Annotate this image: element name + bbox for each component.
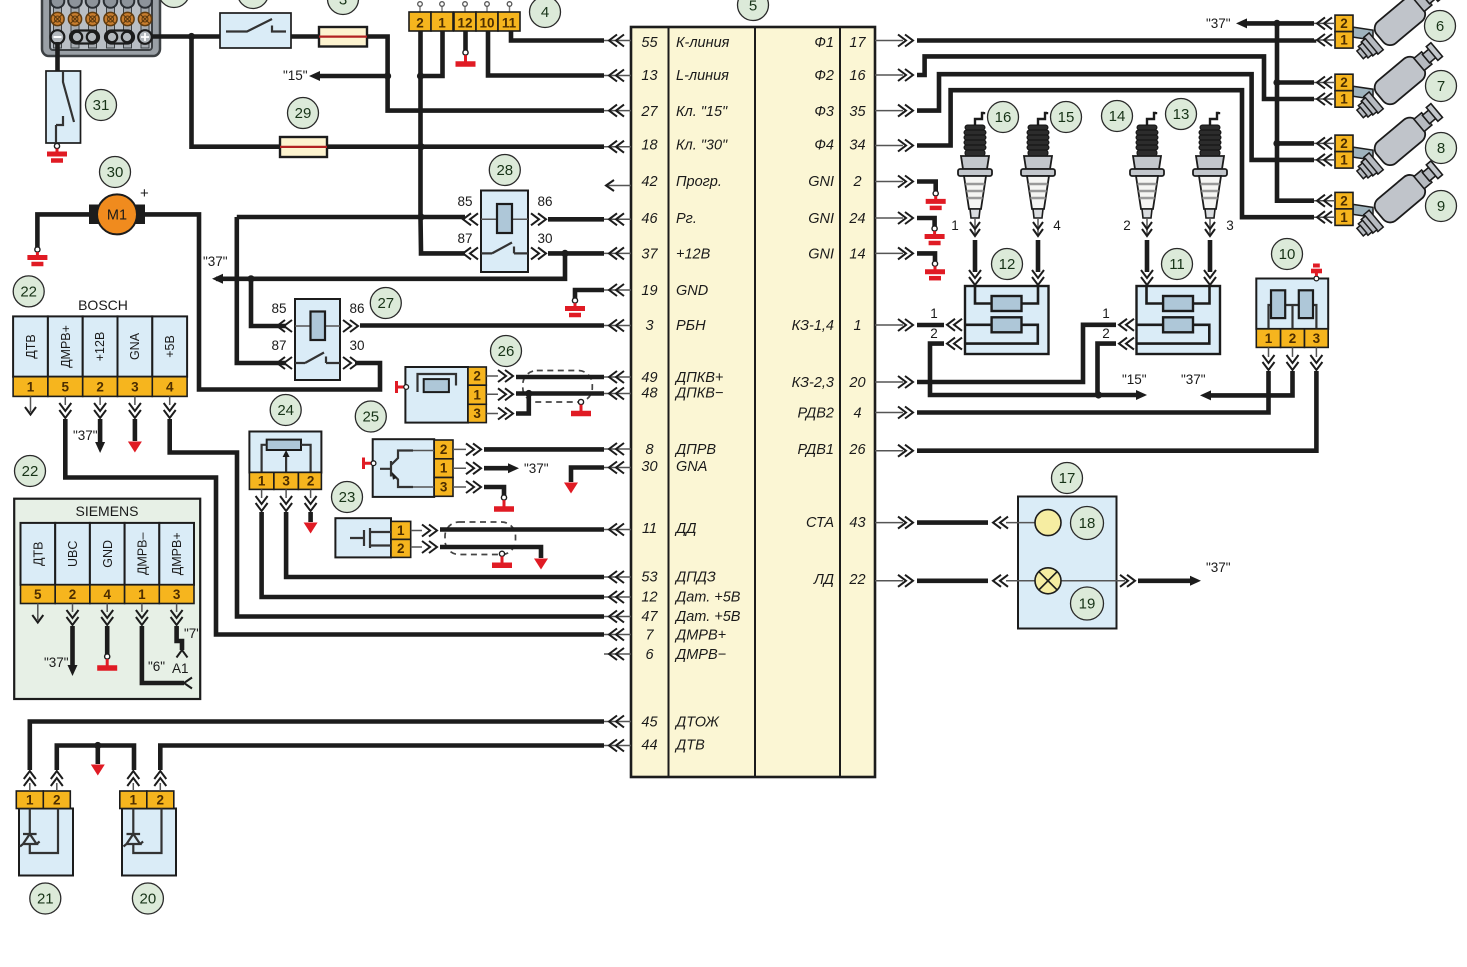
svg-text:5: 5 [749,0,757,15]
wire: pin 11 to ECU 55 K-line [511,31,604,41]
svg-text:30: 30 [107,164,124,181]
svg-text:ДМРВ–: ДМРВ– [136,533,150,576]
wire: ECU 35 F3 to injector 8 [917,74,1314,160]
wire: pin 12 to ground [463,31,468,50]
wire: item25 pin2 to ECU 8 DPRV [484,447,604,452]
svg-text:+: + [140,185,149,202]
wire: BOSCH 4 (+5V) to ECU 47 [170,419,604,617]
svg-text:43: 43 [849,515,865,531]
svg-text:1: 1 [138,587,146,602]
svg-text:15: 15 [1058,109,1075,126]
svg-text:3: 3 [131,380,139,395]
spark plug item 16 [958,112,992,236]
svg-text:42: 42 [641,174,657,190]
fuel injector item 8 [1335,100,1446,186]
label circle 25 [355,401,386,432]
svg-text:14: 14 [849,247,865,263]
label circle 24 [270,395,301,426]
svg-text:Прогр.: Прогр. [676,174,722,190]
svg-text:2: 2 [416,16,424,31]
svg-text:24: 24 [848,211,865,227]
svg-text:M1: M1 [107,208,127,224]
svg-text:6: 6 [1436,18,1444,35]
svg-text:18: 18 [641,138,657,154]
wire: relay28 86 to ECU 46 [548,217,604,222]
svg-text:1: 1 [438,16,446,31]
svg-text:12: 12 [457,16,472,31]
wire: battery + to ignition switch [152,34,220,39]
svg-text:35: 35 [849,104,866,120]
wire: crank 2 to ECU 49 DPKV+ [516,375,604,380]
fuse (top) [291,34,319,39]
svg-text:+12В: +12В [676,247,711,263]
svg-text:SIEMENS: SIEMENS [75,503,138,519]
switch 31 (brake pedal switch) [46,71,81,143]
svg-text:2: 2 [96,380,104,395]
svg-text:31: 31 [93,97,110,114]
diagnostic connector 4 [409,2,520,31]
wire: ECU RDV2 to item10 pin1 [917,371,1269,413]
SIEMENS pin1 to A1 [142,626,184,683]
svg-text:85: 85 [271,301,286,316]
wire: ECU KZ-1,4 to coil 12 pin 1 [917,323,944,328]
label circle 8 [1426,133,1457,164]
svg-text:14: 14 [1109,108,1126,125]
wire: ECU 30 GNA to red arrow [571,468,604,483]
fuel injector item 6 [1335,0,1446,66]
svg-text:13: 13 [641,68,657,84]
relay 27 (fuel pump relay) [271,299,364,380]
wire: BOSCH 5 (DMRV+) to ECU 7 [65,419,604,635]
SIEMENS pin2 to "37" [70,626,75,666]
svg-text:30: 30 [349,338,364,353]
wire: lamp 19 out to "37" [1120,575,1135,587]
svg-text:UBC: UBC [66,541,80,567]
ground bus sensor21 pin2 / sensor20 pin1 with red arrow [57,746,134,771]
label circle (partial) left [159,0,190,8]
ignition switch (contact) [220,13,291,48]
svg-text:Ф1: Ф1 [814,35,834,51]
svg-text:2: 2 [397,541,405,556]
svg-text:GND: GND [676,283,708,299]
label circle 3 [328,0,359,15]
ECU pin 42 programming stub arrow [606,185,631,187]
wire: item25 pin1 to "37" [484,466,510,471]
wire: BOSCH 2 to "37" [98,419,103,443]
wire: sensor21 pin1 to ECU 45 DTOZh [30,722,604,771]
wire: "37" line to relay 28 30 junction [251,253,565,278]
svg-text:"15": "15" [1122,372,1147,387]
svg-text:"6": "6" [148,659,165,674]
svg-text:Кл. "15": Кл. "15" [676,104,728,120]
wire: pin 2 down across to relay 28 feed [421,31,466,253]
svg-text:2: 2 [440,442,448,457]
svg-text:2: 2 [53,793,61,808]
idle air control item 10 [1256,266,1328,371]
svg-text:ДПДЗ: ДПДЗ [674,570,716,586]
svg-text:11: 11 [642,521,657,537]
label circle 15 [1051,102,1082,133]
wire: ECU LD to lamp 19 [917,578,988,583]
svg-text:2: 2 [157,793,165,808]
label circle 28 [489,155,520,186]
svg-text:48: 48 [641,386,657,402]
svg-text:26: 26 [498,343,515,360]
svg-text:11: 11 [1169,256,1185,273]
svg-text:2: 2 [1289,331,1297,346]
wire: ECU KZ-2,3 to coil 11 pin 1 [917,325,1116,382]
svg-text:7: 7 [1437,78,1445,95]
injector thin leads and chevrons [1312,23,1335,217]
svg-text:ДТВ: ДТВ [674,738,705,754]
air temp sensor item 20 [120,771,176,876]
wire: "37" node down to relay 27 85 [251,279,286,326]
svg-text:86: 86 [349,301,364,316]
svg-text:10: 10 [479,16,494,31]
svg-text:3: 3 [173,587,181,602]
svg-text:GND: GND [101,540,115,568]
svg-text:2: 2 [307,474,315,489]
svg-text:1: 1 [853,318,861,334]
svg-text:L-линия: L-линия [676,68,729,84]
svg-text:4: 4 [166,380,174,395]
wire: ECU 34 F4 to injector 9 [917,90,1314,217]
wire: item25 pin3 to ground [484,487,504,495]
label circle 17 [1052,463,1083,494]
fuse 29 [280,137,327,157]
svg-text:85: 85 [457,194,472,209]
wire: crank 3 joins DPKV- [516,394,529,414]
svg-text:ДПРВ: ДПРВ [674,442,716,458]
svg-text:55: 55 [641,35,658,51]
svg-text:8: 8 [1437,140,1445,157]
svg-text:37: 37 [641,247,658,263]
relay 28 (main relay) [457,191,552,273]
svg-text:3: 3 [1313,331,1321,346]
wire: relay28 30 to ECU 37 [548,251,604,256]
svg-text:87: 87 [271,338,286,353]
svg-text:"37": "37" [1206,560,1231,575]
wire: fuse to "15" node and down to ECU pin 27 [367,37,604,111]
ground under switch 31 [47,143,67,160]
label circle 19 [1071,587,1104,620]
HT leads plugs to coils [975,240,1210,272]
svg-text:ДД: ДД [674,521,696,537]
svg-text:Рг.: Рг. [676,211,697,227]
svg-text:Ф2: Ф2 [814,68,834,84]
svg-text:GNI: GNI [808,247,834,263]
svg-text:3: 3 [645,318,653,334]
svg-text:7: 7 [645,628,654,644]
svg-text:3: 3 [282,474,290,489]
svg-text:"15": "15" [283,68,308,83]
wire: sensor20 pin2 to ECU 44 DTV [160,746,604,771]
svg-text:44: 44 [641,738,657,754]
svg-text:ЛД: ЛД [813,572,834,588]
ECU right-edge connector arrows [875,35,913,587]
wire: ECU GNI 2 to ground [917,182,936,192]
node: "15" junction [384,72,391,79]
svg-text:17: 17 [1059,470,1076,487]
svg-text:1: 1 [440,461,448,476]
svg-text:20: 20 [140,891,157,908]
label circle 14 [1102,101,1133,132]
svg-text:53: 53 [641,570,657,586]
svg-text:34: 34 [849,138,865,154]
wire: ECU RDV1 to item10 pin3 [917,371,1316,451]
ECU left-edge connector arrows [604,35,631,752]
label circle 10 [1272,239,1303,270]
wire: BOSCH 3 GNA to red arrow [133,419,138,441]
SIEMENS pin4 to ground [105,626,110,654]
svg-text:GNI: GNI [808,174,834,190]
"37" arrow left of relay 27 [216,276,251,281]
svg-text:49: 49 [641,370,657,386]
svg-text:27: 27 [377,295,394,312]
wire: item24 pin1 to ECU 12 [262,512,604,597]
svg-text:3: 3 [339,0,347,9]
label circle 29 [288,98,319,129]
knock shield ground [492,551,512,565]
svg-text:20: 20 [848,375,865,391]
fuel injector item 9 [1335,157,1446,243]
svg-text:1: 1 [1265,331,1273,346]
wire: corner x236.8 down to relay 27 87 [237,217,286,363]
svg-text:"37": "37" [203,254,228,269]
svg-text:19: 19 [1079,596,1096,613]
svg-text:6: 6 [645,647,654,663]
svg-text:26: 26 [848,442,866,458]
spark plug item 15 [1021,112,1055,236]
instrument cluster item 17 [1006,497,1125,629]
SIEMENS air flow meter item 22 [14,499,201,699]
label circle 30 [100,157,131,188]
svg-text:Ф4: Ф4 [814,138,834,154]
wire: ECU GNI 24 to ground [917,218,935,226]
svg-text:ДМРВ+: ДМРВ+ [170,532,184,575]
label circle 18 [1071,507,1104,540]
svg-text:GNI: GNI [808,211,834,227]
svg-text:24: 24 [277,402,294,419]
label circle 12 [992,249,1023,280]
svg-text:18: 18 [1079,515,1096,532]
shielded pair of knock sensor [445,522,516,555]
svg-text:25: 25 [362,409,379,426]
wire: pin 1 to node [420,31,443,76]
ECU unit item 5 [631,27,875,777]
label circle 22 (SIEMENS) [15,456,46,487]
svg-text:1: 1 [258,474,266,489]
svg-text:"37": "37" [1181,372,1206,387]
wire "15" branch with arrow [316,74,388,79]
svg-text:2: 2 [69,587,77,602]
motor M1 (fuel pump) item 30 [37,185,149,247]
spark plug item 13 [1193,112,1227,236]
svg-text:ДМРВ+: ДМРВ+ [59,325,73,368]
svg-text:ДМРВ−: ДМРВ− [674,647,726,663]
svg-text:46: 46 [641,211,658,227]
wire: crank 1 to ECU 48 DPKV- [516,391,604,396]
svg-text:9: 9 [1437,198,1445,215]
svg-text:4: 4 [541,4,549,21]
svg-text:"37": "37" [524,461,549,476]
svg-text:5: 5 [62,380,70,395]
label circle 9 [1426,191,1457,222]
svg-text:1: 1 [1102,306,1110,321]
svg-text:11: 11 [502,16,517,31]
svg-text:2: 2 [852,174,861,190]
svg-text:Ф3: Ф3 [814,104,834,120]
knock sensor item 23 [335,518,437,557]
"15" arrow [1099,393,1139,398]
svg-text:BOSCH: BOSCH [78,297,128,313]
label circle (partial) above switch [238,0,269,9]
svg-text:КЗ-1,4: КЗ-1,4 [792,318,834,334]
svg-text:30: 30 [537,231,552,246]
svg-text:GNA: GNA [128,332,142,360]
BOSCH air flow meter connector item 22 [13,297,187,418]
svg-text:16: 16 [995,109,1012,126]
svg-text:РДВ1: РДВ1 [798,442,834,458]
label circle 5 [738,0,769,21]
svg-text:87: 87 [457,231,472,246]
svg-text:"7": "7" [184,626,201,641]
node: dot at x191 [188,33,195,40]
svg-text:1: 1 [130,793,138,808]
svg-text:21: 21 [37,891,54,908]
svg-text:17: 17 [849,35,866,51]
wire: ECU 19 GND to ground [575,290,604,298]
svg-text:СТА: СТА [806,515,834,531]
svg-text:1: 1 [397,523,405,538]
camshaft (phase) sensor item 25 [364,439,482,497]
svg-text:"37": "37" [73,428,98,443]
wire: item24 pin2 to red arrow [308,512,313,522]
ignition coil module item 11 [1137,286,1221,354]
label circle 23 [332,482,363,513]
svg-text:47: 47 [641,609,658,625]
svg-text:A1: A1 [172,661,189,676]
wire: coil 12 pin 2 to "15" [930,344,1099,395]
wire: item24 pin3 to ECU 53 DPDZ [286,512,604,577]
svg-text:1: 1 [27,380,35,395]
crank shield ground [571,399,591,413]
svg-text:86: 86 [537,194,552,209]
svg-text:22: 22 [20,283,37,300]
svg-text:13: 13 [1173,106,1190,123]
svg-text:Дат. +5В: Дат. +5В [674,590,741,606]
svg-text:45: 45 [641,715,658,731]
wire: ECU 16 F2 to injector 7 [917,56,1314,99]
svg-text:КЗ-2,3: КЗ-2,3 [792,375,834,391]
svg-text:19: 19 [641,283,657,299]
svg-text:1: 1 [473,388,481,403]
label circle 13 [1166,99,1197,130]
svg-text:1: 1 [951,218,959,233]
label circle 11 [1162,249,1193,280]
junction box (battery terminal block) [42,0,160,56]
svg-text:29: 29 [295,105,312,122]
svg-text:2: 2 [1102,326,1110,341]
svg-text:GNA: GNA [676,459,707,475]
svg-text:3: 3 [473,406,481,421]
motor M1 wire right to relay27 30 [144,214,380,389]
throttle position sensor item 24 [249,432,321,512]
svg-text:22: 22 [848,572,865,588]
svg-text:27: 27 [640,104,658,120]
shielded pair of crank sensor [523,371,593,403]
wire: knock 1 to ECU 11 DD [440,527,604,532]
wire: fuse 29 to ECU pin 18 [327,144,604,149]
wire: ECU 17 F1 to injector 6 [917,38,1314,43]
svg-text:ДМРВ+: ДМРВ+ [674,628,726,644]
label circle 20 [132,883,163,914]
svg-text:ДТОЖ: ДТОЖ [674,715,720,731]
crankshaft position sensor item 26 [397,367,514,423]
svg-text:22: 22 [22,463,39,480]
svg-text:К-линия: К-линия [676,35,730,51]
svg-text:РБН: РБН [676,318,706,334]
svg-text:2: 2 [1123,218,1131,233]
svg-text:16: 16 [849,68,866,84]
coolant temp sensor item 21 [16,771,73,876]
svg-text:+5В: +5В [163,335,177,358]
svg-text:4: 4 [103,587,111,602]
wire: coil 11 pin 2 joins [1098,344,1117,395]
svg-text:23: 23 [339,489,356,506]
svg-text:8: 8 [645,442,653,458]
wire: ECU STA to lamp 18 [917,520,988,525]
label circle 22 (BOSCH) [13,276,44,307]
svg-text:ДТВ: ДТВ [31,542,45,566]
fuel injector item 7 [1335,39,1446,125]
svg-text:Кл. "30": Кл. "30" [676,138,728,154]
svg-text:1: 1 [930,306,938,321]
svg-text:3: 3 [1226,218,1234,233]
svg-text:10: 10 [1279,246,1296,263]
svg-text:4: 4 [853,406,861,422]
wire: down to fuse 29 [192,37,281,147]
wire: relay28 85 feed line [237,215,465,220]
svg-text:ДПКВ+: ДПКВ+ [674,370,723,386]
label circle 16 [988,102,1019,133]
svg-text:"37": "37" [1206,16,1231,31]
label circle 7 [1426,71,1457,102]
svg-text:30: 30 [641,459,657,475]
svg-text:ДПКВ−: ДПКВ− [674,386,723,402]
svg-text:2: 2 [930,326,938,341]
label circle 26 [491,336,522,367]
label circle 31 [86,90,117,121]
wire: ECU GNI 14 to ground [917,253,935,261]
svg-text:1: 1 [26,793,34,808]
ignition coil module item 12 [965,286,1049,354]
spark plug item 14 [1130,112,1164,236]
svg-text:Дат. +5В: Дат. +5В [674,609,741,625]
svg-text:28: 28 [496,162,513,179]
svg-text:12: 12 [641,590,657,606]
svg-text:3: 3 [440,480,448,495]
svg-text:12: 12 [999,256,1016,273]
svg-text:+12В: +12В [93,332,107,362]
svg-text:5: 5 [34,587,42,602]
wire: relay27 86 to ECU 3 RBN [360,323,604,328]
label circle 6 [1425,11,1456,42]
SIEMENS pin3 to "7" [177,626,182,650]
label circle 4 [530,0,561,28]
svg-text:ДТВ: ДТВ [24,334,38,358]
label circle 21 [30,883,61,914]
